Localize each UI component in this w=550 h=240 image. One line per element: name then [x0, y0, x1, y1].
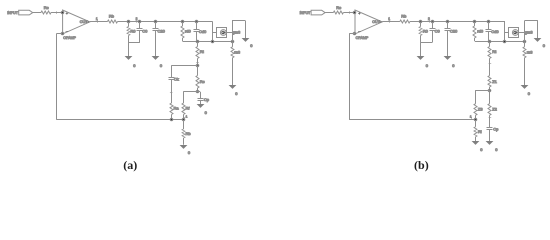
wire Rb2 top lead (a) — [183, 120, 185, 129]
svg-text:Ra: Ra — [174, 106, 180, 111]
wire Cp ground stem (a) — [200, 100, 202, 105]
wire feedback rail (a) — [57, 119, 183, 121]
wire - input stub (a) — [57, 33, 63, 35]
svg-text:Ck: Ck — [174, 76, 179, 81]
wire R0 bottom lead (b) — [420, 36, 422, 43]
svg-text:1: 1 — [186, 115, 188, 119]
svg-text:Cd0: Cd0 — [199, 29, 207, 34]
resistor Z3 (b) — [474, 104, 477, 116]
svg-text:Rs: Rs — [200, 79, 205, 84]
svg-text:Cp: Cp — [204, 97, 210, 102]
svg-text:(a): (a) — [123, 158, 137, 172]
svg-text:Rc: Rc — [336, 5, 341, 10]
svg-text:Z2: Z2 — [492, 106, 497, 111]
controlled source gm3 (b) — [509, 28, 519, 38]
wire bottom bus (b) — [475, 41, 524, 43]
wire Rf top lead (a) — [183, 92, 185, 103]
op-amp + pin dot (a) — [61, 11, 64, 14]
pin tick on + input wire (b) — [349, 11, 351, 14]
wire C20 ground stem (b) — [447, 30, 449, 56]
tick Rt-Z1 pin (b) — [489, 63, 492, 65]
ground R0-C0 (a) — [125, 56, 133, 60]
svg-text:Cp: Cp — [493, 127, 499, 132]
svg-text:(b): (b) — [414, 158, 429, 172]
wire Rf bottom lead (a) — [183, 115, 185, 120]
wire feedback rail (b) — [349, 119, 475, 121]
ground Rb bottom (a) — [180, 145, 188, 149]
tick node T (a) — [196, 62, 199, 64]
capacitor Cp (a) — [198, 99, 204, 101]
wire node T to Ck branch (a) — [171, 65, 197, 67]
wire Rt to node T (a) — [197, 59, 199, 66]
node Cd0 top (a) — [195, 20, 198, 23]
wire Cd0 top lead (a) — [196, 22, 198, 30]
wire op-amp output (a) — [90, 21, 108, 23]
wire R0 bottom lead (a) — [128, 36, 130, 43]
resistor Rf (a) — [182, 103, 185, 114]
svg-text:2: 2 — [428, 17, 430, 21]
wire op-amp output (b) — [382, 21, 400, 23]
wire Rb2 ground stem (a) — [183, 138, 185, 145]
wire R0 top lead (a) — [128, 22, 130, 27]
svg-text:0: 0 — [160, 63, 163, 68]
wire Cd0 bottom lead (b) — [488, 31, 490, 41]
svg-text:0: 0 — [452, 63, 455, 68]
wire top rail (a) — [118, 21, 213, 23]
tick Z2-Cp pin (b) — [489, 117, 492, 119]
op-amp OPAMP (b) — [355, 10, 382, 34]
svg-text:C0: C0 — [435, 29, 441, 34]
wire node B horizontal (a) — [183, 91, 200, 93]
op-amp + pin dot (b) — [353, 11, 356, 14]
node Cd0 top (b) — [487, 20, 490, 23]
svg-text:OPAMP: OPAMP — [63, 36, 76, 40]
wire C0 bottom lead (a) — [139, 30, 141, 42]
ground Cp (a) — [197, 104, 205, 108]
wire feedback vertical (b) — [349, 33, 351, 120]
capacitor Cp (b) — [487, 128, 493, 130]
ground rn3 (b) — [521, 85, 529, 89]
node 1 tick (a) — [97, 20, 99, 23]
node 2 tick (a) — [136, 20, 138, 23]
ground R0-C0 (b) — [417, 56, 425, 60]
tick Ck-Ra pin (a) — [170, 92, 173, 94]
junction node B (a) — [196, 90, 199, 93]
resistor Rs (a) — [196, 76, 199, 89]
wire rd0 bottom lead (b) — [474, 38, 476, 41]
pin tick on + input wire (a) — [56, 11, 58, 14]
wire riser top (a) — [232, 20, 246, 22]
wire Ri top lead (b) — [475, 120, 477, 127]
svg-text:1: 1 — [388, 17, 390, 21]
svg-text:rn3: rn3 — [234, 50, 241, 55]
wire C0 top lead (b) — [432, 22, 434, 29]
junction bottom bus riser (a) — [231, 40, 234, 43]
wire top rail (b) — [410, 21, 505, 23]
wire rn3 ground stem (a) — [232, 58, 234, 85]
wire rd0 bottom lead (a) — [182, 38, 184, 41]
wire rn3 top lead (b) — [524, 41, 526, 47]
svg-text:0: 0 — [235, 91, 238, 96]
svg-text:Ri: Ri — [478, 129, 482, 134]
wire rail drop (b) — [504, 22, 506, 42]
node C20 top (a) — [154, 20, 157, 23]
wire Ck top lead (a) — [171, 66, 173, 78]
wire riser (b) — [524, 21, 526, 41]
ground rn3 (a) — [229, 85, 237, 89]
junction Z3 rail (b) — [474, 118, 477, 121]
wire port to Rc (b) — [325, 12, 333, 14]
resistor rn3 (a) — [231, 47, 234, 58]
svg-text:0: 0 — [528, 91, 531, 96]
wire R0-C0 join (a) — [128, 42, 140, 44]
wire gm3 right pin (a) — [227, 32, 233, 34]
capacitor C20 (b) — [445, 29, 451, 31]
wire rn3 top lead (a) — [232, 41, 234, 47]
capacitor C0 (a) — [137, 29, 143, 31]
resistor Rb bottom (a) — [182, 129, 185, 138]
wire Rc to op-amp + input (b) — [343, 12, 355, 14]
svg-text:rd0: rd0 — [477, 29, 484, 34]
svg-text:0: 0 — [205, 110, 208, 115]
svg-text:Rb: Rb — [401, 13, 407, 18]
resistor R0 (a) — [127, 27, 130, 36]
node 1 tick (b) — [389, 20, 391, 23]
wire rail drop (a) — [212, 22, 214, 42]
wire rd0 top lead (a) — [182, 22, 184, 27]
op-amp OPAMP (a) — [63, 10, 90, 34]
wire Rs bottom lead (a) — [197, 88, 199, 92]
wire Rt top lead (a) — [197, 41, 199, 46]
wire R0-C0 ground stem (b) — [420, 42, 422, 56]
svg-text:0: 0 — [495, 147, 498, 152]
svg-text:rn3: rn3 — [527, 50, 534, 55]
node C0 top (a) — [138, 20, 141, 23]
op-amp - pin dot (a) — [61, 32, 64, 35]
wire riser ground stem (a) — [245, 21, 247, 38]
ground gm3 (b) — [534, 38, 542, 42]
wire Rt to Z1 (b) — [489, 59, 491, 76]
svg-text:Rb: Rb — [109, 13, 115, 18]
svg-text:OPAMP: OPAMP — [356, 36, 369, 40]
node rd0 top (b) — [473, 20, 476, 23]
controlled source gm3 (a) — [217, 28, 227, 38]
wire Z2 top lead (b) — [489, 90, 491, 104]
svg-text:0: 0 — [133, 63, 136, 68]
wire R0-C0 ground stem (a) — [128, 42, 130, 56]
junction Ra rail (a) — [170, 118, 173, 121]
resistor Rt (a) — [196, 47, 199, 59]
resistor rn3 (b) — [523, 47, 526, 58]
svg-text:0: 0 — [543, 43, 546, 48]
junction Rf rail (a) — [182, 118, 185, 121]
wire gm3 left pin (b) — [505, 32, 509, 34]
wire Cp ground stem (b) — [489, 129, 491, 141]
resistor Z1 (b) — [488, 76, 491, 87]
svg-text:C20: C20 — [158, 29, 166, 34]
resistor Rb (b) — [400, 20, 410, 23]
capacitor Ck (a) — [169, 78, 175, 80]
tick rail end (a) — [184, 117, 186, 120]
svg-text:rd0: rd0 — [185, 29, 192, 34]
node R0 top (b) — [419, 20, 422, 23]
node C0 top (b) — [431, 20, 434, 23]
junction bottom bus riser (b) — [523, 40, 526, 43]
resistor Rc (b) — [333, 11, 343, 14]
wire Z3 bottom lead (b) — [475, 115, 477, 120]
node R0 top (a) — [127, 20, 130, 23]
wire Z3 top lead (b) — [475, 90, 477, 104]
wire riser (a) — [232, 21, 234, 41]
node rd0 top (a) — [181, 20, 184, 23]
svg-text:0: 0 — [426, 63, 429, 68]
svg-text:0: 0 — [250, 43, 253, 48]
svg-text:INPUT: INPUT — [300, 11, 312, 15]
junction bottom bus Rt (a) — [196, 40, 199, 43]
wire Ra bottom lead (a) — [171, 115, 173, 120]
wire C0 bottom lead (b) — [432, 30, 434, 42]
tick rail end (b) — [471, 117, 473, 120]
svg-text:INPUT: INPUT — [7, 11, 19, 15]
wire Rc to op-amp + input (a) — [51, 12, 63, 14]
capacitor Cd0 (b) — [486, 30, 492, 32]
resistor Rb (a) — [108, 20, 118, 23]
svg-text:Rb: Rb — [186, 131, 192, 136]
wire Rt top lead (b) — [489, 41, 491, 46]
svg-text:2: 2 — [136, 17, 138, 21]
input port INPUT (b) — [311, 10, 325, 15]
junction bottom bus drop (b) — [503, 40, 506, 43]
junction bottom bus drop (a) — [211, 40, 214, 43]
capacitor C20 (a) — [153, 29, 159, 31]
wire Ri ground stem (b) — [475, 137, 477, 142]
wire Z1 bottom lead (b) — [489, 87, 491, 90]
wire C0 top lead (a) — [139, 22, 141, 29]
svg-text:R0: R0 — [130, 29, 136, 34]
wire port to Rc (a) — [33, 12, 41, 14]
resistor Rt (b) — [488, 47, 491, 59]
wire node B horizontal (b) — [476, 90, 490, 92]
ground Cp (b) — [486, 141, 494, 145]
wire Cd0 top lead (b) — [488, 22, 490, 30]
svg-text:Z1: Z1 — [492, 79, 497, 84]
resistor R0 (b) — [419, 27, 422, 36]
wire riser ground stem (b) — [537, 21, 539, 38]
wire riser top (b) — [524, 20, 538, 22]
svg-text:Rt: Rt — [492, 49, 497, 54]
resistor rd0 (a) — [181, 26, 184, 38]
svg-text:Rt: Rt — [200, 49, 205, 54]
junction bottom bus Rt (b) — [488, 40, 491, 43]
junction node T (a) — [196, 64, 199, 67]
wire gm3 right pin (b) — [519, 32, 525, 34]
wire R0 top lead (b) — [420, 22, 422, 27]
wire feedback vertical (a) — [56, 33, 58, 120]
ground C20 (a) — [152, 56, 160, 60]
wire rd0 top lead (b) — [474, 22, 476, 27]
wire rn3 ground stem (b) — [524, 58, 526, 85]
ground gm3 (a) — [242, 38, 250, 42]
ground Ri (b) — [472, 141, 480, 145]
wire Cd0 bottom lead (a) — [196, 31, 198, 41]
wire - input stub (b) — [349, 33, 355, 35]
svg-text:C20: C20 — [450, 29, 458, 34]
svg-text:Cd0: Cd0 — [491, 29, 499, 34]
op-amp - pin dot (b) — [353, 32, 356, 35]
svg-text:0: 0 — [480, 147, 483, 152]
wire Z2 to Cp (b) — [489, 115, 491, 127]
node 2 tick (b) — [429, 20, 431, 23]
resistor Ra (a) — [170, 103, 173, 114]
wire Ck to Ra (a) — [171, 79, 173, 103]
resistor rd0 (b) — [473, 26, 476, 38]
ground C20 (b) — [444, 56, 452, 60]
wire C20 ground stem (a) — [155, 30, 157, 56]
svg-text:gm3: gm3 — [232, 29, 241, 34]
svg-text:R0: R0 — [423, 29, 429, 34]
resistor Ri (b) — [474, 127, 477, 137]
svg-text:gm3: gm3 — [525, 29, 534, 34]
svg-text:0: 0 — [188, 150, 191, 155]
capacitor Cd0 (a) — [194, 30, 200, 32]
junction node B (b) — [488, 89, 491, 92]
svg-text:1: 1 — [96, 17, 98, 21]
node C20 top (b) — [446, 20, 449, 23]
svg-text:C0: C0 — [142, 29, 148, 34]
wire C20 top lead (b) — [447, 22, 449, 29]
wire Rs top lead (a) — [197, 66, 199, 76]
svg-text:Rc: Rc — [44, 5, 49, 10]
resistor Z2 (b) — [488, 104, 491, 116]
wire Cp top lead (a) — [200, 92, 202, 98]
capacitor C0 (b) — [430, 29, 436, 31]
svg-text:Z3: Z3 — [478, 106, 483, 111]
wire C20 top lead (a) — [155, 22, 157, 29]
wire R0-C0 join (b) — [421, 42, 433, 44]
wire bottom bus (a) — [183, 41, 232, 43]
svg-text:Rf: Rf — [186, 106, 191, 111]
wire gm3 left pin (a) — [213, 32, 217, 34]
input port INPUT (a) — [19, 10, 33, 15]
resistor Rc (a) — [41, 11, 51, 14]
